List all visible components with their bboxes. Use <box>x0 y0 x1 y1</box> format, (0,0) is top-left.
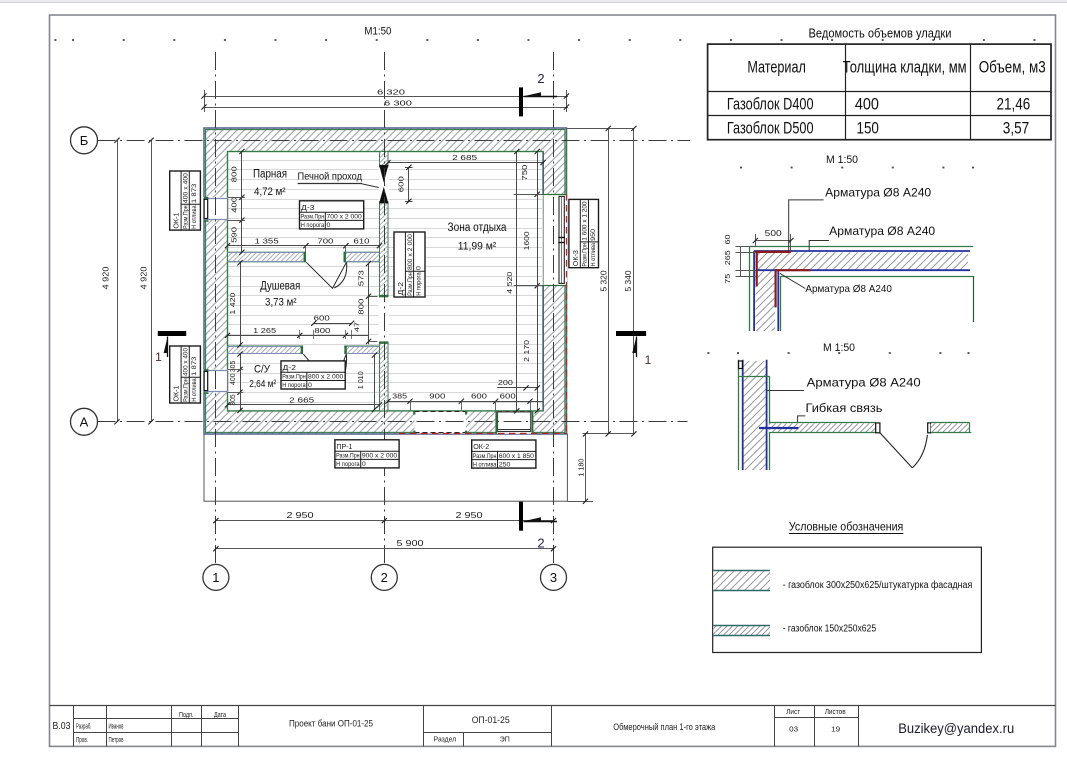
svg-text:600: 600 <box>500 392 516 401</box>
svg-text:Разраб.: Разраб. <box>76 723 92 731</box>
svg-text:400: 400 <box>230 197 239 213</box>
svg-text:Газоблок D400: Газоблок D400 <box>727 95 814 113</box>
svg-text:ОК-2: ОК-2 <box>473 444 489 451</box>
svg-text:М 1:50: М 1:50 <box>823 342 855 354</box>
svg-text:Д-2: Д-2 <box>283 365 297 372</box>
svg-text:0: 0 <box>415 266 422 270</box>
svg-text:900 x 2 000: 900 x 2 000 <box>362 453 398 460</box>
svg-text:3,73 м²: 3,73 м² <box>265 296 297 308</box>
svg-text:305: 305 <box>228 361 237 373</box>
svg-text:Листов: Листов <box>825 709 846 716</box>
svg-text:Разм.Прн: Разм.Прн <box>301 214 325 221</box>
svg-text:400 x 400: 400 x 400 <box>183 348 190 376</box>
svg-text:11,99 м²: 11,99 м² <box>458 240 497 252</box>
svg-text:1 420: 1 420 <box>228 293 237 315</box>
svg-text:1 265: 1 265 <box>253 326 276 335</box>
svg-text:4 520: 4 520 <box>505 272 514 294</box>
svg-text:4 920: 4 920 <box>102 266 111 289</box>
svg-text:Петров: Петров <box>109 737 124 744</box>
svg-text:Условные обозначения: Условные обозначения <box>789 520 903 534</box>
svg-text:1600: 1600 <box>522 231 531 250</box>
svg-text:03: 03 <box>789 725 798 734</box>
svg-text:700 x 2 000: 700 x 2 000 <box>327 214 363 221</box>
svg-text:ОК-3: ОК-3 <box>573 250 580 266</box>
svg-text:950: 950 <box>590 229 597 241</box>
svg-text:Н отлива: Н отлива <box>473 461 497 468</box>
svg-text:Парная: Парная <box>253 169 287 181</box>
svg-text:800: 800 <box>356 299 365 315</box>
svg-text:5 340: 5 340 <box>624 270 633 291</box>
svg-text:Разм.Прн: Разм.Прн <box>282 374 306 381</box>
svg-text:1 010: 1 010 <box>356 371 365 389</box>
svg-text:Подп.: Подп. <box>179 712 194 719</box>
svg-text:Гибкая связь: Гибкая связь <box>806 401 883 415</box>
svg-text:Лист: Лист <box>786 709 801 716</box>
svg-text:265: 265 <box>723 250 732 265</box>
svg-text:Н порога: Н порога <box>336 461 360 468</box>
svg-text:Арматура Ø8 А240: Арматура Ø8 А240 <box>805 283 892 295</box>
svg-text:2: 2 <box>537 536 544 551</box>
svg-text:1 180: 1 180 <box>576 459 585 477</box>
svg-text:Газоблок D500: Газоблок D500 <box>727 119 814 137</box>
svg-text:ОК-1: ОК-1 <box>174 212 181 228</box>
svg-text:Дата: Дата <box>214 712 226 719</box>
svg-text:2 950: 2 950 <box>287 510 314 520</box>
svg-text:Б: Б <box>80 133 89 148</box>
svg-text:В.03: В.03 <box>53 721 71 732</box>
svg-text:Раздел: Раздел <box>434 735 457 744</box>
svg-text:6 320: 6 320 <box>377 87 405 96</box>
svg-text:Разм.Прн: Разм.Прн <box>183 378 190 402</box>
svg-text:Н отлива: Н отлива <box>590 243 597 267</box>
svg-text:Зона отдыха: Зона отдыха <box>448 222 508 234</box>
svg-text:400 x 400: 400 x 400 <box>183 173 190 204</box>
svg-text:- газоблок 300x250x625/штукату: - газоблок 300x250x625/штукатурка фасадн… <box>783 579 973 591</box>
svg-text:1 600 x 1 200: 1 600 x 1 200 <box>582 201 589 241</box>
svg-text:1: 1 <box>645 353 652 367</box>
svg-text:3: 3 <box>550 570 557 585</box>
svg-text:250: 250 <box>499 461 511 468</box>
svg-text:600: 600 <box>471 392 487 401</box>
svg-text:800 x 2 000: 800 x 2 000 <box>308 374 344 381</box>
svg-text:Д-2: Д-2 <box>398 282 405 296</box>
svg-text:5 320: 5 320 <box>600 270 609 291</box>
svg-text:19: 19 <box>831 725 840 734</box>
svg-text:600: 600 <box>314 314 330 323</box>
svg-text:Н порога: Н порога <box>282 382 306 389</box>
svg-text:Разм.Прн: Разм.Прн <box>582 243 589 267</box>
svg-text:- газоблок 150x250x625: - газоблок 150x250x625 <box>783 623 877 635</box>
svg-text:2 170: 2 170 <box>522 340 531 362</box>
svg-text:1 873: 1 873 <box>191 356 198 376</box>
svg-text:Материал: Материал <box>747 58 806 76</box>
svg-text:4 920: 4 920 <box>140 266 149 289</box>
svg-text:1: 1 <box>155 350 162 364</box>
svg-text:385: 385 <box>392 392 407 401</box>
svg-text:400: 400 <box>228 373 237 385</box>
svg-text:М1:50: М1:50 <box>364 25 391 37</box>
svg-text:610: 610 <box>354 236 370 245</box>
svg-text:600 x 1 850: 600 x 1 850 <box>499 453 535 460</box>
svg-text:0: 0 <box>308 382 312 389</box>
svg-text:0: 0 <box>362 461 366 468</box>
svg-text:600: 600 <box>396 176 405 192</box>
svg-text:Арматура Ø8 А240: Арматура Ø8 А240 <box>825 186 931 200</box>
svg-text:60: 60 <box>723 235 732 245</box>
svg-text:Печной проход: Печной проход <box>298 170 363 182</box>
svg-text:Ведомость объемов уладки: Ведомость объемов уладки <box>809 26 952 40</box>
svg-text:3,57: 3,57 <box>1003 119 1030 137</box>
svg-text:21,46: 21,46 <box>997 95 1031 113</box>
svg-text:400: 400 <box>855 95 879 113</box>
svg-text:ЭП: ЭП <box>500 735 510 744</box>
svg-text:Арматура Ø8 А240: Арматура Ø8 А240 <box>829 224 935 238</box>
svg-text:Иванов: Иванов <box>109 724 124 731</box>
svg-text:150: 150 <box>857 119 879 137</box>
svg-text:2: 2 <box>537 71 544 86</box>
svg-text:Разм.Прн: Разм.Прн <box>473 453 497 460</box>
svg-text:2: 2 <box>381 570 388 585</box>
svg-text:Разм.Прн: Разм.Прн <box>407 272 414 296</box>
svg-text:Пров.: Пров. <box>76 737 88 744</box>
svg-text:М 1:50: М 1:50 <box>826 154 858 166</box>
svg-text:А: А <box>80 414 89 429</box>
svg-text:1: 1 <box>212 570 219 585</box>
svg-text:Объем, м3: Объем, м3 <box>979 58 1046 76</box>
svg-text:Н порога: Н порога <box>415 272 422 296</box>
svg-text:700: 700 <box>317 236 333 245</box>
svg-text:590: 590 <box>230 227 239 243</box>
svg-text:5 900: 5 900 <box>397 538 424 548</box>
svg-text:2,64 м²: 2,64 м² <box>249 379 277 390</box>
svg-text:Обмерочный план 1-го этажа: Обмерочный план 1-го этажа <box>613 722 715 732</box>
svg-text:Д-3: Д-3 <box>301 205 315 212</box>
svg-text:750: 750 <box>520 165 529 181</box>
svg-text:0: 0 <box>327 222 331 229</box>
svg-text:2 685: 2 685 <box>452 153 477 162</box>
svg-text:800: 800 <box>230 166 239 182</box>
svg-text:Buzikey@yandex.ru: Buzikey@yandex.ru <box>898 721 1014 736</box>
svg-text:573: 573 <box>356 270 365 286</box>
svg-text:Проект бани ОП-01-25: Проект бани ОП-01-25 <box>289 719 373 729</box>
svg-text:6 300: 6 300 <box>384 98 412 107</box>
svg-text:800 x 2 000: 800 x 2 000 <box>407 234 414 270</box>
svg-text:1 873: 1 873 <box>191 183 198 203</box>
svg-text:ПР-1: ПР-1 <box>336 444 352 451</box>
svg-text:Толщина кладки, мм: Толщина кладки, мм <box>843 58 967 76</box>
svg-text:Разм.Прн: Разм.Прн <box>183 205 190 229</box>
svg-text:ОК-1: ОК-1 <box>174 385 181 401</box>
svg-text:Разм.Прн: Разм.Прн <box>336 453 360 460</box>
svg-text:Душевая: Душевая <box>260 281 300 293</box>
svg-text:1 355: 1 355 <box>255 236 279 245</box>
svg-text:2 665: 2 665 <box>289 395 314 404</box>
svg-text:ОП-01-25: ОП-01-25 <box>472 715 510 725</box>
svg-text:500: 500 <box>765 229 783 238</box>
svg-text:Арматура Ø8 А240: Арматура Ø8 А240 <box>807 375 921 389</box>
svg-text:Н порога: Н порога <box>301 222 325 229</box>
svg-text:Н отлива: Н отлива <box>191 378 198 402</box>
svg-text:2 950: 2 950 <box>456 510 483 520</box>
svg-text:Н отлива: Н отлива <box>191 205 198 229</box>
svg-text:800: 800 <box>314 326 330 335</box>
svg-text:47: 47 <box>354 322 361 332</box>
svg-text:900: 900 <box>429 392 445 401</box>
svg-text:75: 75 <box>723 274 732 284</box>
svg-text:4,72 м²: 4,72 м² <box>254 186 286 198</box>
svg-text:200: 200 <box>498 378 513 387</box>
svg-text:С/У: С/У <box>254 363 271 375</box>
